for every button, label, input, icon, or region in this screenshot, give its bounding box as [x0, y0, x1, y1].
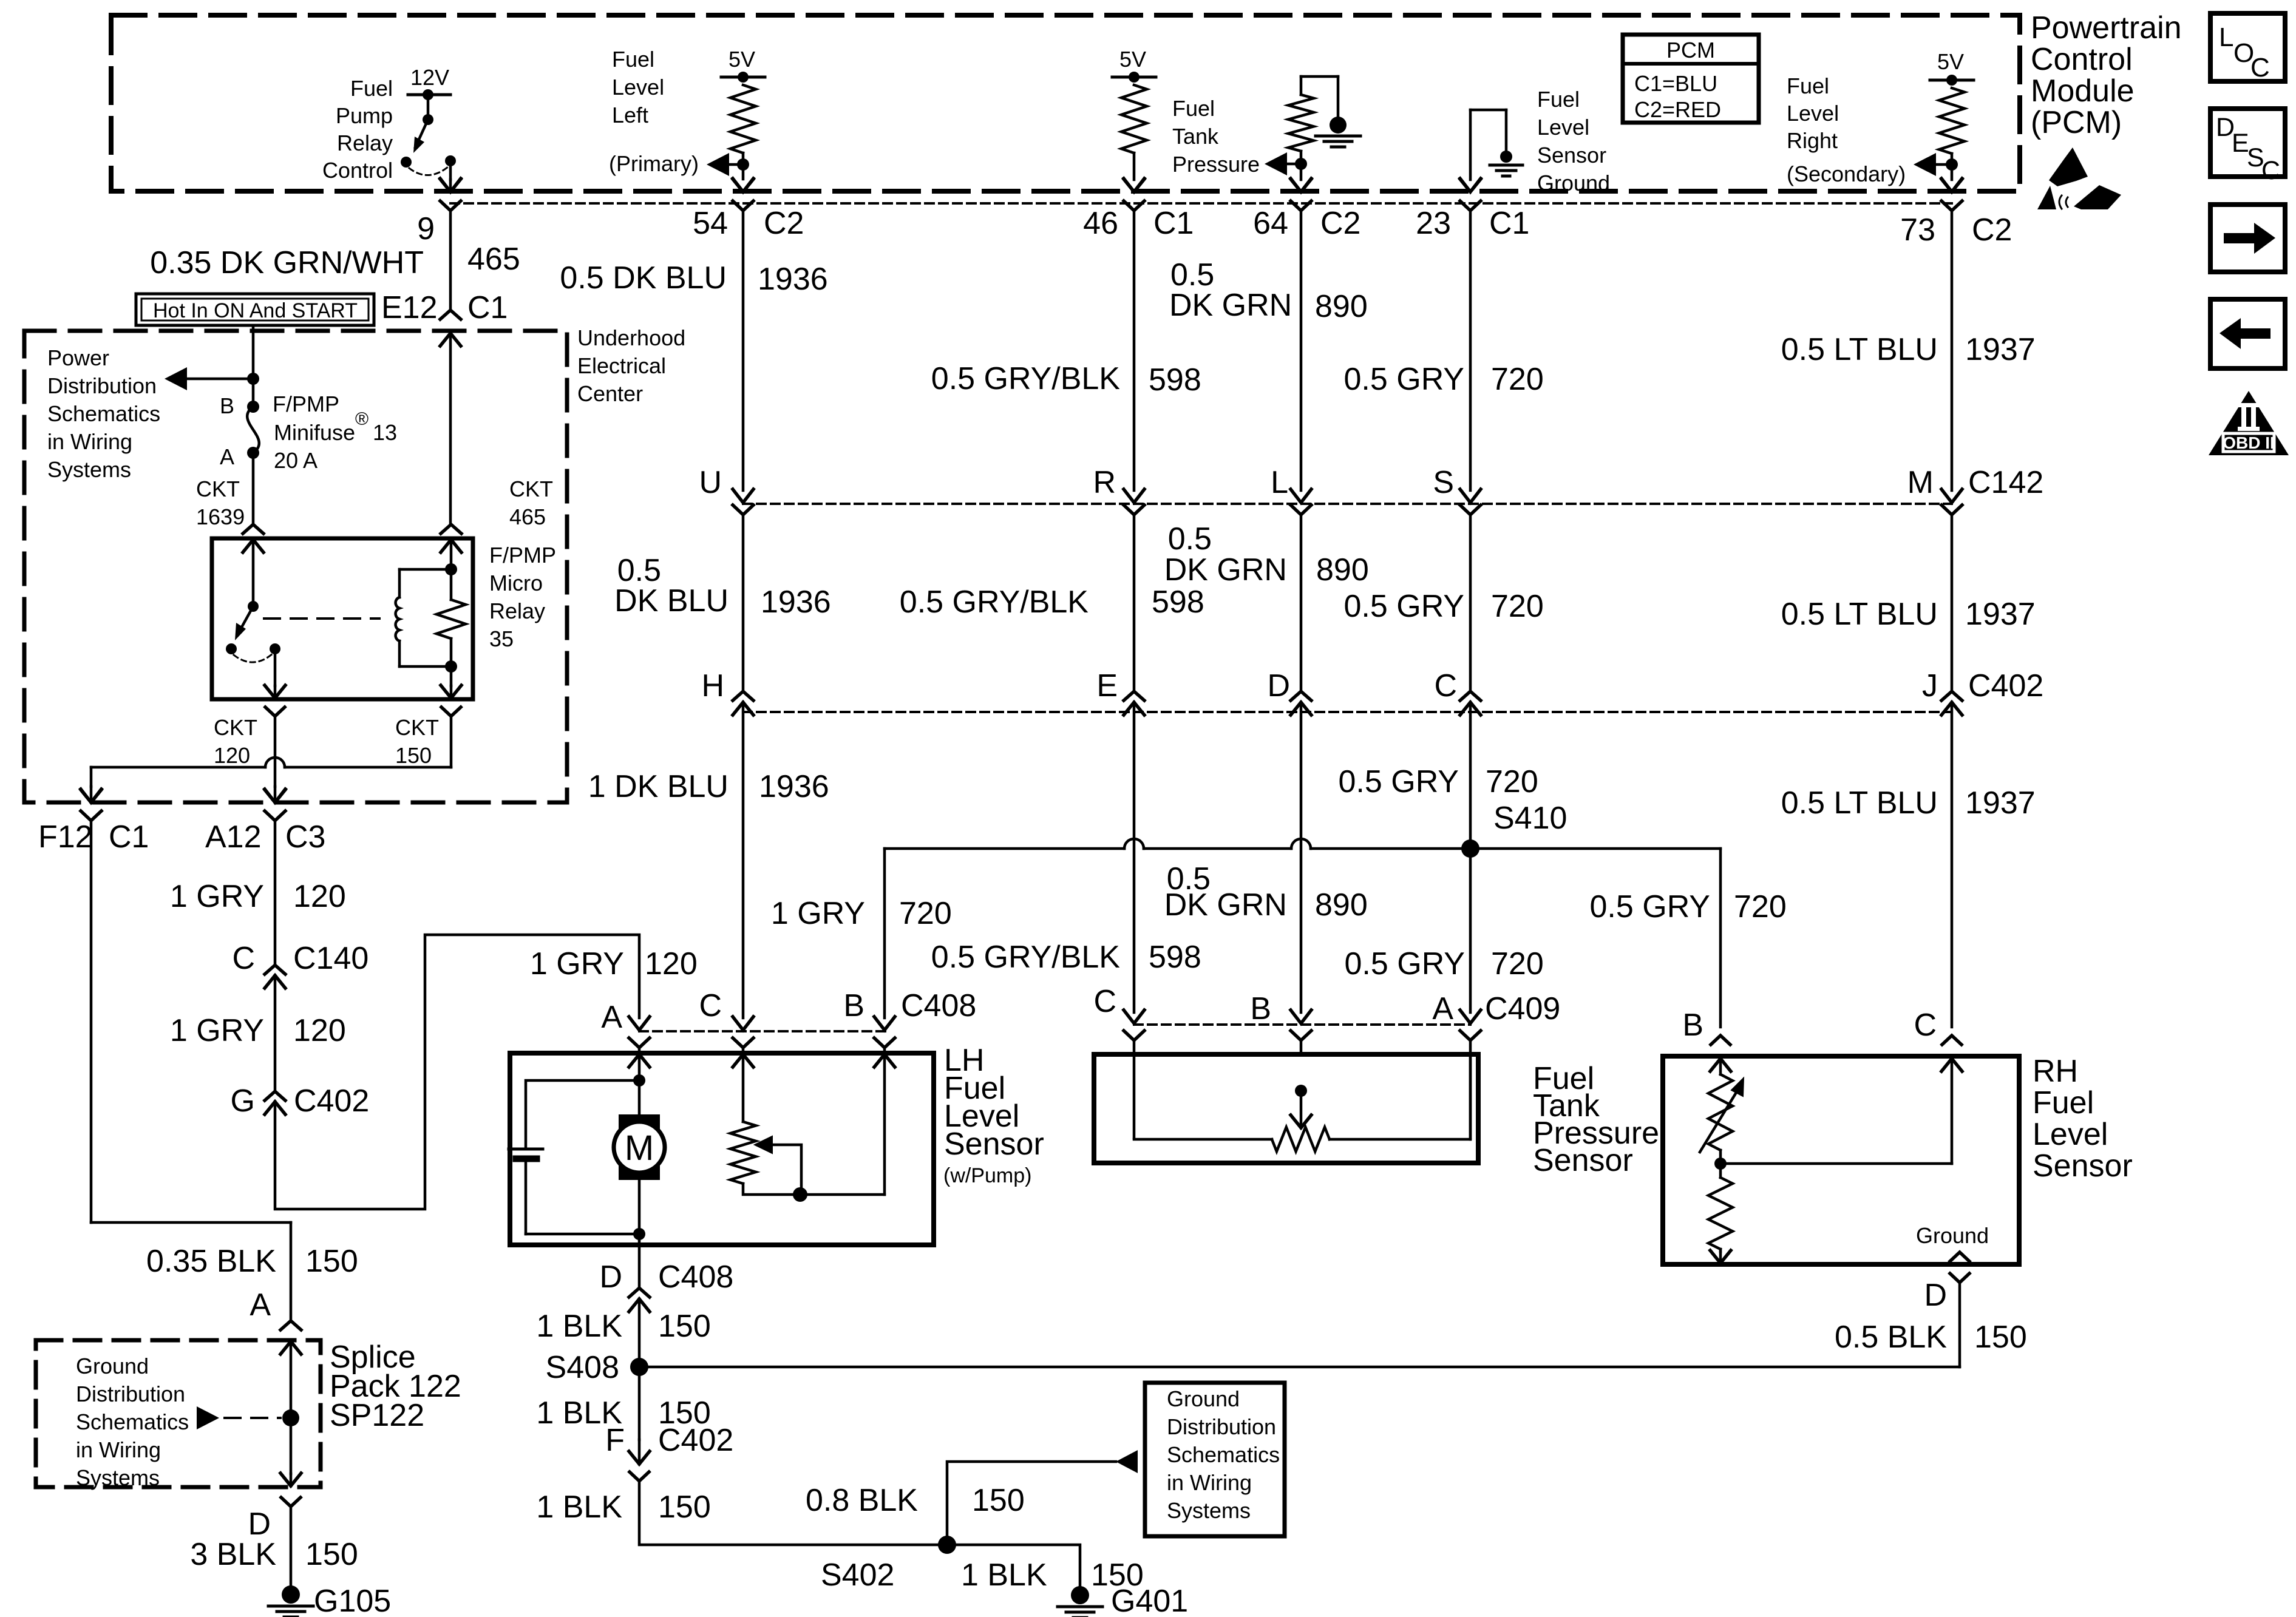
svg-text:Fuel: Fuel	[1172, 96, 1215, 121]
svg-text:465: 465	[467, 242, 520, 277]
wire 150 blk from F12	[90, 821, 93, 1222]
ground G105	[282, 1585, 300, 1604]
svg-text:5V: 5V	[729, 47, 755, 72]
connector C409 dashed line	[1134, 1023, 1470, 1026]
connector C402 pin J	[1941, 691, 1962, 700]
svg-text:SP122: SP122	[330, 1398, 424, 1433]
wire 1936 dk blu segment 1	[742, 211, 745, 490]
svg-text:®: ®	[355, 409, 369, 429]
svg-text:in Wiring: in Wiring	[1167, 1470, 1252, 1495]
connector C142 pin S	[1460, 489, 1481, 503]
wire 120 gry A12 to C140	[274, 821, 277, 965]
svg-text:3 BLK: 3 BLK	[190, 1537, 276, 1572]
svg-text:C3: C3	[285, 819, 325, 855]
svg-text:C402: C402	[1968, 668, 2043, 703]
svg-text:C: C	[232, 941, 255, 976]
svg-text:Sensor: Sensor	[2033, 1148, 2133, 1184]
pump check valve / battery symbol	[526, 1080, 639, 1149]
RH wiper junction	[1714, 1158, 1727, 1170]
svg-text:A12: A12	[205, 819, 262, 855]
relay coil	[450, 540, 453, 569]
wire 150 blk pin D to S408	[638, 1245, 641, 1288]
connector into relay (CKT465)	[441, 524, 461, 534]
wiper output to pin B	[743, 1184, 885, 1195]
svg-text:0.5 DK BLU: 0.5 DK BLU	[560, 260, 727, 296]
LH Fuel Level Sensor box	[510, 1053, 934, 1245]
svg-text:0.5 GRY: 0.5 GRY	[1590, 889, 1710, 924]
connector C408 pin B	[874, 1017, 895, 1030]
svg-text:(w/Pump): (w/Pump)	[943, 1164, 1031, 1187]
svg-text:Control: Control	[322, 158, 393, 183]
12V supply bar	[408, 93, 450, 97]
wire 720 segment 2	[1469, 515, 1472, 691]
svg-text:A: A	[601, 1000, 622, 1035]
connector C408 pin A	[629, 1017, 650, 1030]
svg-text:C: C	[699, 988, 722, 1023]
Splice Pack 122 dashed box	[36, 1340, 321, 1487]
LOC icon	[2210, 13, 2285, 81]
resistor fuel level right pull-up	[1939, 88, 1965, 154]
svg-text:S: S	[1433, 465, 1454, 500]
svg-text:0.5 LT BLU: 0.5 LT BLU	[1781, 597, 1938, 632]
svg-text:5V: 5V	[1937, 49, 1964, 74]
svg-text:13: 13	[373, 420, 397, 445]
svg-text:120: 120	[214, 743, 250, 768]
svg-text:Schematics: Schematics	[1167, 1442, 1280, 1467]
svg-text:598: 598	[1149, 940, 1201, 975]
svg-text:C2=RED: C2=RED	[1634, 97, 1721, 122]
svg-text:Right: Right	[1787, 128, 1838, 153]
svg-text:PCM: PCM	[1666, 38, 1715, 63]
svg-text:Level: Level	[2033, 1117, 2108, 1152]
svg-text:9: 9	[417, 211, 435, 246]
svg-text:B: B	[843, 988, 864, 1023]
svg-text:Fuel: Fuel	[612, 47, 654, 72]
svg-text:(Primary): (Primary)	[609, 151, 699, 176]
svg-text:720: 720	[1491, 362, 1544, 397]
svg-text:Ground: Ground	[76, 1354, 149, 1378]
svg-text:598: 598	[1152, 585, 1204, 620]
FTP sensing element	[1295, 1085, 1307, 1097]
svg-text:0.5: 0.5	[1168, 521, 1212, 557]
svg-text:Power: Power	[47, 345, 109, 370]
connector C409 pin B	[1291, 1010, 1311, 1023]
connector below relay CKT 120	[265, 707, 285, 716]
svg-text:C140: C140	[293, 941, 369, 976]
svg-text:Ground: Ground	[1537, 171, 1610, 195]
svg-text:E12: E12	[381, 290, 438, 325]
svg-text:1639: 1639	[196, 504, 245, 529]
svg-text:in Wiring: in Wiring	[76, 1437, 161, 1462]
svg-text:Pressure: Pressure	[1172, 152, 1260, 177]
svg-text:G: G	[231, 1083, 255, 1119]
svg-text:Fuel: Fuel	[1787, 73, 1829, 98]
svg-text:S402: S402	[821, 1558, 894, 1593]
svg-text:Distribution: Distribution	[1167, 1414, 1276, 1439]
wire 598 segment 3 to FTP sensor pin C	[1133, 702, 1136, 1012]
splice S410 branch to RH sensor pin B with hops	[885, 847, 1470, 850]
svg-text:120: 120	[645, 946, 698, 981]
svg-text:Systems: Systems	[76, 1465, 160, 1490]
svg-text:150: 150	[395, 743, 432, 768]
svg-text:1 BLK: 1 BLK	[961, 1558, 1047, 1593]
reference arrow into ground distribution box	[1116, 1450, 1138, 1473]
svg-text:0.5 GRY/BLK: 0.5 GRY/BLK	[931, 361, 1121, 396]
svg-text:Minifuse: Minifuse	[274, 420, 355, 445]
in-line connector C402 pin G	[265, 1091, 285, 1100]
connector C408 pin C	[733, 1017, 753, 1030]
connector C142 dashed line	[743, 503, 1952, 505]
wire 1937 lt blu segment 1	[1951, 211, 1954, 490]
splice S410	[1461, 839, 1479, 858]
svg-text:CKT: CKT	[509, 476, 553, 501]
svg-text:54: 54	[693, 206, 728, 241]
svg-text:Level: Level	[612, 75, 664, 100]
svg-text:Distribution: Distribution	[47, 373, 157, 398]
wire 890 segment 3 to FTP sensor pin B	[1300, 702, 1303, 1012]
in-line connector C402 pin F	[629, 1451, 650, 1464]
5V bar fuel tank pressure	[1112, 76, 1156, 79]
svg-text:Center: Center	[577, 381, 643, 406]
wire 1937 segment 3 to RH sensor pin C	[1951, 702, 1954, 1027]
svg-text:Relay: Relay	[489, 598, 545, 623]
svg-text:Relay: Relay	[337, 131, 393, 155]
svg-text:(PCM): (PCM)	[2031, 105, 2122, 140]
svg-text:23: 23	[1416, 206, 1451, 241]
LH level sender potentiometer	[730, 1122, 756, 1184]
svg-text:(Secondary): (Secondary)	[1787, 161, 1906, 186]
connector A into splice pack	[280, 1321, 301, 1330]
PCM connector legend box	[1623, 35, 1759, 123]
svg-text:C2: C2	[1972, 212, 2012, 248]
svg-text:C408: C408	[901, 988, 976, 1023]
svg-text:Control: Control	[2031, 42, 2133, 77]
svg-text:1 GRY: 1 GRY	[170, 879, 264, 914]
svg-text:G105: G105	[314, 1584, 391, 1617]
svg-text:U: U	[699, 465, 722, 500]
svg-text:C409: C409	[1485, 991, 1560, 1026]
connector RH sensor pin C	[1942, 1036, 1961, 1045]
connector RH sensor pin B	[1711, 1036, 1730, 1045]
svg-text:C1: C1	[109, 819, 149, 855]
wire resistor to pin 46	[1133, 153, 1136, 180]
svg-text:Systems: Systems	[47, 457, 131, 482]
fuel pump motor branch junction	[633, 1074, 645, 1086]
RH lower resistor to ground	[1708, 1178, 1733, 1249]
svg-text:Pump: Pump	[336, 103, 393, 128]
wire 120 gry C402 to LH sensor pin A	[275, 935, 639, 1209]
svg-text:150: 150	[1974, 1320, 2027, 1355]
wire 150 blk pin F to S402	[639, 1481, 947, 1545]
wire 720 segment 3 to splice S410	[1469, 702, 1472, 849]
svg-text:C2: C2	[764, 206, 804, 241]
svg-text:890: 890	[1316, 552, 1369, 588]
connector C142 pin M	[1941, 489, 1962, 503]
svg-text:1 BLK: 1 BLK	[536, 1309, 622, 1344]
svg-text:Sensor: Sensor	[1537, 143, 1606, 168]
svg-text:C1: C1	[1153, 206, 1194, 241]
svg-text:Electrical: Electrical	[577, 353, 666, 378]
power feed arrow from Hot In callout	[252, 325, 255, 378]
svg-text:B: B	[220, 393, 234, 418]
svg-text:Schematics: Schematics	[76, 1409, 189, 1434]
wire 150 blk S402 to G401	[947, 1545, 1080, 1586]
wire 890 dk grn segment 1	[1300, 211, 1303, 490]
5V bar fuel level left	[721, 76, 765, 79]
Ground Distribution Schematics reference box	[1145, 1383, 1285, 1536]
svg-text:720: 720	[899, 896, 952, 931]
wire CKT 150 down and across with hop	[450, 716, 453, 767]
splice S402	[938, 1536, 956, 1554]
wire 150 blk RH ground pin D	[1958, 1283, 1961, 1367]
svg-text:Powertrain: Powertrain	[2031, 10, 2182, 46]
S408 to RH sensor ground wire	[639, 1366, 1960, 1369]
svg-text:Fuel: Fuel	[1537, 87, 1580, 112]
svg-text:A: A	[1432, 991, 1453, 1026]
wire relay control to PCM edge	[449, 161, 452, 180]
svg-text:46: 46	[1083, 206, 1118, 241]
OBD II icon	[2209, 391, 2289, 455]
wire 0.8 blk S402 to ground distribution	[947, 1462, 1116, 1545]
relay mechanical link dashed	[264, 617, 379, 620]
svg-text:in Wiring: in Wiring	[47, 429, 132, 454]
svg-text:720: 720	[1491, 946, 1544, 981]
svg-text:F/PMP: F/PMP	[273, 392, 339, 416]
relay switch output wire	[274, 649, 277, 686]
connector C408 pin D below LH sensor	[629, 1288, 650, 1297]
svg-text:Ground: Ground	[1916, 1223, 1989, 1248]
svg-text:OBD II: OBD II	[2223, 433, 2275, 452]
svg-text:150: 150	[658, 1309, 711, 1344]
svg-text:1937: 1937	[1965, 597, 2036, 632]
connector C402 pin D	[1291, 691, 1311, 700]
svg-text:890: 890	[1315, 887, 1368, 923]
svg-text:0.35 BLK: 0.35 BLK	[146, 1244, 276, 1279]
connector C408 dashed line	[639, 1030, 885, 1032]
relay coil suppression resistor	[450, 569, 453, 600]
svg-text:Left: Left	[612, 103, 648, 127]
svg-text:120: 120	[293, 1013, 346, 1048]
in-line connector C140 pin C	[265, 965, 285, 974]
svg-text:Underhood: Underhood	[577, 325, 685, 350]
connector into relay (CKT1639)	[243, 524, 263, 534]
svg-text:12V: 12V	[410, 65, 449, 90]
svg-text:Fuel: Fuel	[350, 76, 393, 101]
svg-text:DK GRN: DK GRN	[1164, 552, 1287, 588]
fuel pump relay control switch	[427, 95, 430, 120]
svg-text:890: 890	[1315, 289, 1368, 324]
svg-text:0.5 LT BLU: 0.5 LT BLU	[1781, 332, 1938, 367]
grounded resistor fuel tank pressure signal	[1300, 76, 1303, 95]
svg-text:1936: 1936	[759, 769, 829, 804]
svg-text:C: C	[1434, 668, 1457, 703]
wire 1937 segment 2	[1951, 515, 1954, 691]
svg-text:Level: Level	[1537, 115, 1589, 140]
svg-text:C408: C408	[658, 1259, 733, 1295]
svg-text:M: M	[1907, 465, 1934, 500]
svg-text:Systems: Systems	[1167, 1498, 1251, 1523]
svg-text:0.5 GRY/BLK: 0.5 GRY/BLK	[900, 585, 1089, 620]
svg-text:C1: C1	[467, 290, 508, 325]
svg-text:Hot In ON And START: Hot In ON And START	[153, 299, 358, 322]
wire 720 gry segment 1	[1469, 211, 1472, 490]
svg-text:DK BLU: DK BLU	[614, 583, 729, 619]
svg-text:B: B	[1250, 991, 1271, 1026]
svg-text:150: 150	[658, 1490, 711, 1525]
svg-text:C: C	[2250, 53, 2270, 83]
svg-text:J: J	[1922, 668, 1938, 703]
connector C3 pin A12	[265, 789, 285, 802]
svg-text:0.5 GRY: 0.5 GRY	[1344, 589, 1464, 624]
svg-text:D: D	[599, 1259, 622, 1295]
connector C142 pin R	[1124, 489, 1144, 503]
svg-text:RH: RH	[2033, 1054, 2078, 1089]
svg-text:F12: F12	[38, 819, 93, 855]
svg-text:35: 35	[489, 626, 514, 651]
connector C142 pin U	[733, 489, 753, 503]
Powertrain Control Module (PCM) dashed box	[111, 15, 2020, 191]
connector C2 pin 54 (fuel level left)	[733, 178, 753, 192]
relay coil output wire	[450, 666, 453, 686]
RH Fuel Level Sensor box	[1663, 1056, 2019, 1264]
svg-text:150: 150	[305, 1244, 358, 1279]
svg-text:1 GRY: 1 GRY	[530, 946, 624, 981]
svg-text:64: 64	[1253, 206, 1288, 241]
connector C1 pin 9 (fuel pump relay control)	[440, 178, 461, 192]
connector C1 pin 46 (fuel tank pressure ref)	[1124, 178, 1144, 192]
svg-text:73: 73	[1900, 212, 1935, 248]
svg-text:Tank: Tank	[1172, 124, 1219, 149]
fuel pump motor M	[619, 1114, 660, 1180]
connector C1 pin 23 (fuel level sensor ground)	[1460, 178, 1481, 192]
connector C402 dashed line	[743, 711, 1952, 713]
wire 1936 segment 2	[742, 515, 745, 691]
wire 720 from S410 to RH sensor	[1470, 847, 1720, 850]
RH variable resistor upper	[1708, 1074, 1733, 1150]
RH variable resistor arrow	[1700, 1086, 1740, 1152]
svg-text:0.8 BLK: 0.8 BLK	[806, 1483, 918, 1518]
svg-text:D: D	[1267, 668, 1290, 703]
svg-text:5V: 5V	[1119, 47, 1146, 72]
potentiometer wiper	[766, 1145, 801, 1195]
svg-text:L: L	[2219, 22, 2233, 52]
svg-text:C402: C402	[294, 1083, 369, 1119]
svg-text:Micro: Micro	[489, 571, 543, 595]
svg-text:0.5 GRY/BLK: 0.5 GRY/BLK	[931, 940, 1121, 975]
svg-text:1 GRY: 1 GRY	[170, 1013, 264, 1048]
svg-text:1 GRY: 1 GRY	[771, 896, 865, 931]
splice SP122 wire	[290, 1341, 293, 1418]
connector C142 pin L	[1291, 489, 1311, 503]
DESC icon	[2210, 109, 2285, 177]
case ground symbol fuel level sensor ground	[1500, 151, 1512, 163]
connector C402 pin E	[1124, 691, 1144, 700]
svg-text:0.5 GRY: 0.5 GRY	[1345, 946, 1465, 981]
svg-text:1937: 1937	[1965, 332, 2036, 367]
svg-text:A: A	[250, 1287, 271, 1323]
svg-text:C: C	[1093, 984, 1116, 1019]
svg-text:C: C	[2261, 156, 2280, 185]
svg-text:F/PMP: F/PMP	[489, 543, 556, 568]
svg-text:A: A	[220, 444, 234, 469]
svg-text:0.5 GRY: 0.5 GRY	[1339, 764, 1459, 799]
svg-text:720: 720	[1734, 889, 1787, 924]
5V bar fuel level right	[1930, 79, 1974, 82]
connector C2 pin 64 (fuel tank pressure signal)	[1291, 178, 1311, 192]
wire 598 gry/blk segment 1	[1133, 211, 1136, 490]
svg-text:0.5 BLK: 0.5 BLK	[1835, 1320, 1947, 1355]
connector C2 pin 73 (fuel level right)	[1941, 178, 1962, 192]
svg-text:0.35 DK GRN/WHT: 0.35 DK GRN/WHT	[150, 245, 424, 280]
svg-text:M: M	[625, 1128, 654, 1168]
wire CKT 120 down	[274, 716, 277, 787]
forward arrow icon	[2210, 205, 2285, 272]
svg-text:1936: 1936	[761, 585, 831, 620]
svg-text:B: B	[1682, 1008, 1703, 1043]
connector below relay CKT 150	[441, 707, 461, 716]
svg-text:Level: Level	[1787, 101, 1839, 126]
wire 598 segment 2	[1133, 515, 1136, 691]
back arrow icon	[2210, 299, 2285, 368]
svg-text:S408: S408	[546, 1350, 619, 1385]
connector C409 pin A	[1460, 1010, 1481, 1023]
case ground symbol at FTP signal	[1330, 117, 1347, 134]
svg-text:Schematics: Schematics	[47, 401, 160, 426]
svg-text:G401: G401	[1111, 1584, 1188, 1617]
svg-text:20 A: 20 A	[274, 448, 318, 473]
svg-text:Sensor: Sensor	[944, 1127, 1044, 1162]
svg-text:F: F	[605, 1423, 625, 1458]
wire 150 blk S408 to C402 pin F	[638, 1367, 641, 1440]
svg-text:DK GRN: DK GRN	[1164, 887, 1287, 923]
svg-text:C2: C2	[1320, 206, 1360, 241]
svg-text:CKT: CKT	[395, 715, 439, 740]
connector C409 pin C	[1124, 1010, 1144, 1023]
svg-text:1937: 1937	[1965, 785, 2036, 821]
svg-text:Distribution: Distribution	[76, 1381, 185, 1406]
svg-text:CKT: CKT	[214, 715, 257, 740]
Fuel Tank Pressure Sensor box	[1094, 1054, 1478, 1163]
junction and arrow fuel level right	[1951, 154, 1954, 164]
resistor fuel level left pull-up	[730, 85, 756, 153]
svg-text:Fuel: Fuel	[2033, 1085, 2094, 1120]
resistor fuel tank pressure pull-up	[1121, 85, 1147, 153]
splice S408	[630, 1358, 648, 1376]
svg-text:1936: 1936	[758, 262, 828, 297]
svg-text:C1: C1	[1489, 206, 1529, 241]
wire 1936 segment 3 to LH sensor pin C	[742, 702, 745, 1018]
svg-text:0.5 GRY: 0.5 GRY	[1344, 362, 1464, 397]
svg-text:1 BLK: 1 BLK	[536, 1490, 622, 1525]
Underhood Electrical Center dashed box	[24, 331, 567, 802]
ESD sensitivity symbol	[2049, 147, 2088, 186]
svg-text:720: 720	[1486, 764, 1538, 799]
Hot In ON And START callout box	[136, 294, 374, 325]
relay switch	[252, 540, 255, 606]
svg-text:0.5 LT BLU: 0.5 LT BLU	[1781, 785, 1938, 821]
svg-text:C1=BLU: C1=BLU	[1634, 71, 1717, 96]
wire 890 segment 2	[1300, 515, 1303, 691]
svg-text:120: 120	[293, 879, 346, 914]
ground G401	[1071, 1586, 1089, 1604]
svg-text:150: 150	[972, 1483, 1025, 1518]
svg-text:720: 720	[1491, 589, 1544, 624]
connector C1 pin F12	[81, 789, 101, 802]
F/PMP Micro Relay 35 box	[212, 538, 473, 699]
svg-text:CKT: CKT	[196, 476, 240, 501]
svg-text:150: 150	[305, 1537, 358, 1572]
PCM connector C1/C2 dashed line	[450, 202, 1952, 205]
